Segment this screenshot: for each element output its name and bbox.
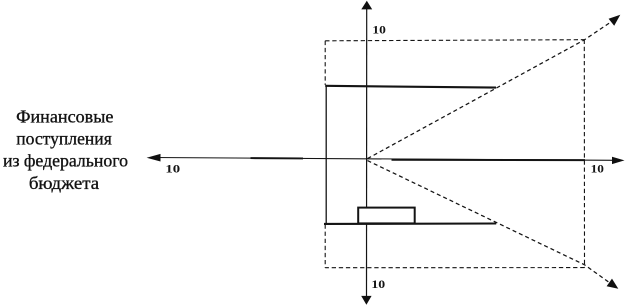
horizontal axis: [152, 158, 616, 161]
upper diagonal arrowhead: [609, 15, 621, 26]
top arrowhead: [361, 1, 372, 10]
left arrowhead: [147, 154, 161, 162]
upper step line: [325, 86, 496, 88]
vertical axis: [366, 8, 368, 296]
upper dashed diagonal: [368, 21, 613, 159]
bottom arrowhead: [361, 296, 371, 305]
horizontal axis thick segment right: [392, 159, 586, 161]
dashed boundary rectangle right edge: [583, 40, 585, 268]
dashed boundary rectangle bottom edge: [325, 267, 584, 269]
svg-text:Финансовые: Финансовые: [16, 107, 113, 127]
left vertical connector line: [325, 85, 327, 224]
lower dashed diagonal: [368, 161, 611, 283]
svg-text:бюджета: бюджета: [29, 173, 99, 193]
svg-text:10: 10: [372, 23, 386, 37]
svg-text:10: 10: [371, 277, 385, 291]
horizontal axis thick segment left: [251, 157, 304, 159]
right arrowhead: [612, 157, 625, 164]
svg-text:из федерального: из федерального: [3, 150, 128, 170]
svg-text:10: 10: [165, 162, 180, 176]
dashed boundary rectangle top edge: [325, 40, 584, 41]
caption text: Финансовые поступления из федерального бюджета: [3, 107, 128, 193]
dashed boundary rectangle left edge upper segment: [324, 41, 326, 85]
lower diagonal arrowhead: [607, 279, 619, 289]
small white rectangle: [358, 208, 415, 224]
svg-text:поступления: поступления: [16, 129, 112, 149]
svg-text:10: 10: [591, 161, 604, 175]
lower step line: [324, 222, 496, 224]
dashed boundary rectangle left edge lower segment: [324, 225, 326, 268]
